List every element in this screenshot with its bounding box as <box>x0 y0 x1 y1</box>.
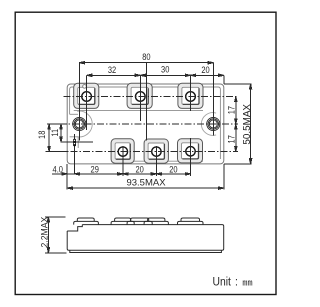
right mounting boss <box>201 113 216 136</box>
svg-text:2.2MAX: 2.2MAX <box>39 217 50 248</box>
svg-text:29: 29 <box>91 164 100 175</box>
vertical extension right edge top <box>223 75 225 84</box>
svg-text:50.5MAX: 50.5MAX <box>242 104 253 145</box>
svg-text:Unit:mm: Unit:mm <box>213 276 253 289</box>
left mounting hole <box>73 117 86 130</box>
vertical extension line mid <box>145 63 147 141</box>
dimension 17/17 line <box>235 97 237 152</box>
vertical extension left edge bottom <box>66 164 68 190</box>
screw B2 <box>152 147 161 156</box>
terminal block T3 <box>178 83 203 108</box>
side view body <box>67 225 224 253</box>
vertical centerline left hole <box>78 63 80 141</box>
dimension 80 line <box>79 62 213 64</box>
border frame <box>15 12 276 294</box>
dimension 11 line <box>60 124 62 142</box>
terminal block B2 <box>144 139 168 163</box>
side bump B2 <box>144 218 168 225</box>
side bump B1 <box>111 218 134 225</box>
bottom platform line <box>111 160 203 162</box>
right mounting hole <box>207 117 220 130</box>
vertical centerline pin <box>74 134 76 174</box>
svg-text:20: 20 <box>169 164 178 175</box>
vertical centerline screw B1 <box>122 146 124 176</box>
svg-text:17: 17 <box>226 135 237 144</box>
vertical centerline screw B2 <box>155 146 157 176</box>
dimension 93.5MAX line <box>67 187 224 189</box>
left mounting boss <box>77 111 92 137</box>
lid inner lines <box>70 87 221 159</box>
vertical centerline right hole <box>212 63 214 136</box>
vertical extension right edge bottom <box>223 164 225 190</box>
dimension 2.2MAX line <box>45 217 67 253</box>
top platform line <box>74 110 203 112</box>
vertical centerline screw T1 <box>86 75 88 130</box>
screw T1 <box>82 92 92 102</box>
side bump T1 tier1 <box>74 218 99 225</box>
svg-text:80: 80 <box>142 51 151 62</box>
screw B1 <box>118 147 127 156</box>
svg-text:32: 32 <box>108 64 117 75</box>
vertical centerline screw T2 <box>139 75 141 121</box>
svg-text:93.5MAX: 93.5MAX <box>126 177 166 188</box>
svg-text:20: 20 <box>201 64 210 75</box>
centerline top screw row <box>64 96 238 98</box>
terminal block B3 <box>178 139 203 163</box>
svg-text:4.0: 4.0 <box>53 163 64 174</box>
svg-text:17: 17 <box>226 106 237 115</box>
dimension 18 line <box>47 124 67 152</box>
terminal block T1 <box>74 83 99 108</box>
centerline mounting holes <box>47 123 238 125</box>
module outline (top view) <box>67 84 224 164</box>
terminal block B1 <box>111 139 134 163</box>
dimension chain 32/30/20 line <box>87 74 224 76</box>
svg-text:11: 11 <box>49 129 60 137</box>
dimension 4.0/29/20/20 line <box>52 173 191 175</box>
svg-text:30: 30 <box>161 63 170 74</box>
T1 pilot hole <box>83 85 87 89</box>
side bump T2 <box>127 218 152 225</box>
pin reference line <box>61 141 93 143</box>
terminal block T2 <box>127 83 152 108</box>
side bump T3B3 <box>178 218 204 225</box>
screw T2 <box>135 92 145 102</box>
screw B3 <box>186 147 195 156</box>
svg-text:18: 18 <box>36 130 47 139</box>
dimension 50.5MAX line <box>224 84 252 164</box>
centerline bottom screw row <box>46 151 238 153</box>
screw T3 <box>186 92 196 102</box>
vertical centerline screw B3 <box>190 138 192 176</box>
vertical centerline screw T3 <box>190 75 192 111</box>
pin P1 <box>73 139 76 147</box>
svg-text:20: 20 <box>135 164 144 175</box>
